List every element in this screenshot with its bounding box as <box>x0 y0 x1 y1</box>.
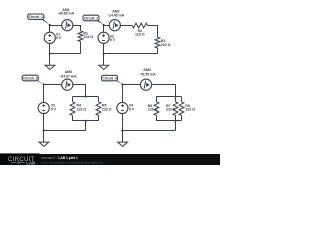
svg-text:323 Ω: 323 Ω <box>185 108 195 112</box>
svg-text:-14.45 mA: -14.45 mA <box>108 14 125 18</box>
svg-text:5 V: 5 V <box>51 108 57 112</box>
svg-text:LAB: LAB <box>26 160 35 165</box>
svg-text:123 Ω: 123 Ω <box>135 33 145 37</box>
svg-text:AM4: AM4 <box>143 68 151 72</box>
svg-text:5 V: 5 V <box>129 108 135 112</box>
svg-text:Circuit_3: Circuit_3 <box>23 76 37 80</box>
svg-text:-78.55 mA: -78.55 mA <box>139 73 156 77</box>
svg-text:123 Ω: 123 Ω <box>77 107 87 111</box>
svg-text:223 Ω: 223 Ω <box>161 43 171 47</box>
svg-text:5 V: 5 V <box>56 36 62 40</box>
svg-text:Circuit_1: Circuit_1 <box>29 15 43 19</box>
svg-text:-40.65 mA: -40.65 mA <box>58 12 75 16</box>
svg-text:223 Ω: 223 Ω <box>166 108 176 112</box>
svg-text:123 Ω: 123 Ω <box>148 108 158 112</box>
svg-text:Circuit_2: Circuit_2 <box>84 16 98 20</box>
svg-text:Circuit_4: Circuit_4 <box>102 77 116 81</box>
svg-text:223 Ω: 223 Ω <box>102 107 112 111</box>
svg-text:123 Ω: 123 Ω <box>84 35 94 39</box>
svg-text:5 V: 5 V <box>110 38 116 42</box>
svg-text:-63.07 mA: -63.07 mA <box>60 74 77 78</box>
svg-text:http://circuitlab.com/c/23eh4j: http://circuitlab.com/c/23eh4jmzgkbr6e <box>42 160 103 164</box>
